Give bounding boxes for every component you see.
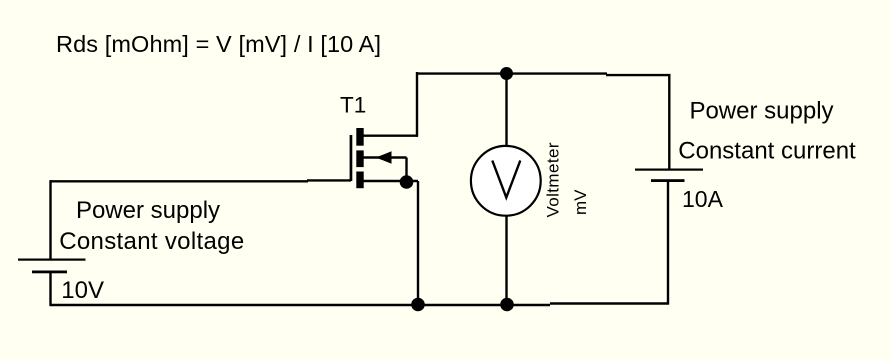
channel bar middle (bulk)	[356, 150, 363, 167]
wire bottom bus right	[550, 302, 669, 304]
node bottom bus junction dot (transistor source)	[411, 298, 425, 312]
wire bulk vertical to source node	[405, 158, 407, 183]
battery B1 (left) long plate	[18, 259, 86, 261]
wire right battery bottom	[667, 182, 669, 305]
svg-text:10A: 10A	[682, 186, 724, 212]
wire left battery top	[49, 180, 51, 258]
node top bus junction dot	[500, 67, 513, 80]
node bottom bus junction dot (voltmeter)	[500, 298, 514, 312]
voltmeter U1 circle	[471, 146, 541, 216]
wire top bus	[416, 72, 607, 74]
svg-text:Power supply: Power supply	[689, 98, 833, 125]
wire drain horizontal	[363, 134, 418, 136]
svg-text:10V: 10V	[61, 277, 104, 304]
wire source vertical down	[417, 181, 419, 305]
svg-text:Constant voltage: Constant voltage	[59, 228, 244, 255]
wire gate horizontal right part	[307, 179, 351, 181]
wire drain vertical	[416, 72, 418, 137]
gate line	[350, 135, 353, 181]
voltmeter V mark	[492, 161, 520, 198]
svg-text:Voltmeter: Voltmeter	[544, 142, 563, 217]
bulk arrow	[376, 151, 392, 164]
wire bulk-arrow horizontal	[363, 156, 407, 158]
wire left battery bottom	[49, 272, 51, 306]
wire bottom bus left	[50, 304, 550, 306]
svg-text:Power supply: Power supply	[76, 197, 220, 224]
wire voltmeter top	[505, 73, 507, 146]
node source junction dot	[400, 175, 414, 189]
wire voltmeter bottom	[505, 215, 507, 305]
battery B2 (right) short plate	[651, 179, 685, 182]
svg-text:Constant current: Constant current	[678, 137, 856, 164]
wire gate horizontal from left supply	[50, 180, 308, 182]
channel bar bottom (source)	[356, 172, 363, 189]
battery B2 (right) long plate	[635, 169, 703, 171]
wire source horizontal	[363, 180, 418, 182]
channel bar top (drain)	[356, 128, 363, 146]
wire top bus right part	[606, 74, 671, 76]
battery B1 (left) short plate	[32, 271, 67, 274]
transistor T1	[350, 128, 392, 188]
wire right battery top	[668, 74, 670, 169]
svg-text:Rds [mOhm] = V [mV] / I [10 A]: Rds [mOhm] = V [mV] / I [10 A]	[56, 31, 381, 57]
svg-text:T1: T1	[340, 92, 366, 117]
svg-text:mV: mV	[571, 189, 590, 215]
